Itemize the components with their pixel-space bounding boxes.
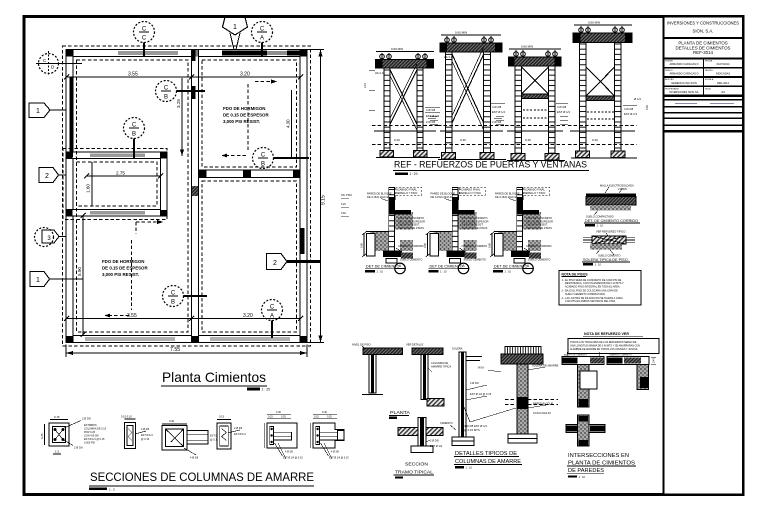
H1 hatch body: [586, 197, 636, 206]
svg-text:SOLERA TIPICA DE PISO: SOLERA TIPICA DE PISO: [583, 258, 628, 262]
title block frame: [664, 17, 744, 495]
right top room inner dashed: [202, 60, 297, 167]
svg-text:CIMIENTO CORRIDO: CIMIENTO CORRIDO: [398, 244, 424, 248]
corner columns top: [66, 50, 73, 57]
plan outer dashed boundary: [63, 46, 311, 346]
concrete note left room: [102, 259, 148, 277]
refuerzo note box: [568, 339, 659, 354]
svg-text:2 Ø 3/8: 2 Ø 3/8: [430, 439, 439, 443]
svg-text:NOTA DE REFUERZO VER: NOTA DE REFUERZO VER: [584, 332, 629, 336]
svg-text:2 Ø 3/8: 2 Ø 3/8: [141, 428, 150, 431]
tower2 right leg: [484, 52, 491, 159]
floor slab detail H2: [582, 230, 635, 267]
svg-text:ARMANDO CARACAS D: ARMANDO CARACAS D: [669, 62, 698, 66]
svg-text:2 Ø 3/8: 2 Ø 3/8: [74, 446, 83, 450]
left vdim: [363, 234, 365, 256]
svg-text:PROPIETARIO: PROPIETARIO: [665, 88, 679, 91]
svg-text:4 Ø 3/8: 4 Ø 3/8: [624, 107, 634, 111]
svg-text:SECCIONES DE COLUMNAS DE AMAR: SECCIONES DE COLUMNAS DE AMARRE: [90, 470, 314, 484]
svg-text:NIV. PISO: NIV. PISO: [341, 194, 352, 197]
svg-text:NOTA DE PISOS: NOTA DE PISOS: [562, 273, 589, 277]
beam black top: [389, 197, 395, 212]
svg-text:0.15 0.10: 0.15 0.10: [121, 415, 132, 419]
grid bubble pentagon 2 right: [267, 254, 322, 270]
svg-text:0.40: 0.40: [276, 411, 281, 414]
inter-tower annotation cluster 2: [492, 118, 502, 124]
tower2 base pads: [442, 153, 456, 160]
2.75 dimension small room: [84, 170, 163, 178]
tower4 top dim: [574, 24, 632, 26]
svg-text:4 Ø 3/8: 4 Ø 3/8: [285, 451, 294, 454]
tower3 inner dashed: [523, 109, 548, 111]
svg-text:CIMIENTO: CIMIENTO: [440, 421, 453, 425]
svg-text:3,000 PSI: 3,000 PSI: [84, 442, 95, 445]
svg-text:INDICADAS: INDICADAS: [716, 72, 730, 76]
column elevation detail mid: [440, 347, 492, 446]
svg-text:DISEÑO: DISEÑO: [665, 60, 673, 63]
svg-text:4 Ø 3/8: 4 Ø 3/8: [492, 105, 502, 109]
svg-text:@ 0.15 MTS: @ 0.15 MTS: [464, 428, 480, 432]
svg-text:B: B: [171, 300, 175, 306]
grid bubble pentagon 2 left: [39, 168, 66, 183]
grid bubble C/B right room: [253, 148, 310, 169]
foundation section detail 2: [423, 187, 488, 274]
tower4 inner dashed: [587, 111, 614, 113]
top wall: [66, 50, 307, 57]
left form board: [367, 234, 376, 257]
svg-text:B: B: [261, 162, 265, 168]
svg-text:1.60: 1.60: [86, 184, 91, 193]
tower1 top dim marks: [376, 51, 434, 53]
interior wall column hatch: [192, 186, 198, 196]
planta label: [389, 410, 411, 419]
seccion cross detail: [398, 418, 443, 453]
H2 left wing lines: [583, 237, 592, 239]
svg-text:3,000 PSI RESIST.: 3,000 PSI RESIST.: [223, 119, 260, 124]
base outline: [386, 259, 397, 264]
continuous footing detail H1: [584, 184, 640, 228]
dashed route arrow left room lower: [104, 240, 132, 318]
svg-text:0.60: 0.60: [341, 212, 346, 215]
grid bubble C/A top: [252, 22, 273, 58]
svg-text:3,000 PSI RESIST.: 3,000 PSI RESIST.: [102, 272, 139, 277]
svg-text:0.40: 0.40: [592, 138, 598, 142]
H1 lower stipple: [590, 205, 631, 211]
plan title underline: [161, 385, 267, 387]
tower3 bolt stems: [516, 50, 555, 56]
svg-text:0.60 MIN: 0.60 MIN: [455, 31, 467, 35]
svg-text:A: A: [260, 36, 264, 42]
nota de refuerzo header: [583, 332, 643, 336]
svg-text:0.25: 0.25: [327, 416, 332, 419]
svg-text:0.15: 0.15: [314, 416, 319, 419]
column section S6: [310, 411, 349, 460]
svg-text:2 Ø 3/8: 2 Ø 3/8: [426, 120, 436, 124]
svg-text:REPELLO Y FINO: REPELLO Y FINO: [396, 191, 417, 195]
svg-text:1 : 25: 1 : 25: [262, 387, 271, 391]
svg-text:0.60 MIN: 0.60 MIN: [391, 47, 403, 51]
svg-text:ACABADO FINO INTEGRAL EN TODA: ACABADO FINO INTEGRAL EN TODA EL AREA.: [565, 285, 621, 288]
svg-text:VER DETALLE: VER DETALLE: [406, 343, 424, 347]
column section S3: [162, 419, 222, 460]
corner columns bottom: [66, 336, 73, 342]
tower 2: [430, 31, 506, 160]
svg-text:2 Ø 3/8: 2 Ø 3/8: [492, 120, 502, 124]
svg-text:0.20: 0.20: [341, 203, 346, 206]
svg-text:2 Ø 3/8: 2 Ø 3/8: [618, 187, 627, 191]
svg-text:4.30: 4.30: [286, 119, 291, 128]
svg-text:5.90: 5.90: [77, 267, 82, 276]
svg-text:0.40: 0.40: [394, 138, 400, 142]
grid bubble C/C top: [134, 22, 155, 58]
left wall: [66, 50, 73, 343]
svg-text:3.25: 3.25: [176, 99, 181, 108]
detail bubble: [395, 263, 406, 274]
grid bubble pentagon 1 bottom-left: [30, 272, 83, 287]
svg-text:REF - REFUERZOS DE PUERTAS Y V: REF - REFUERZOS DE PUERTAS Y VENTANAS: [394, 159, 587, 170]
tower3 left leg: [515, 66, 522, 160]
interior wall black segment mid: [192, 86, 196, 99]
svg-text:ANCHO DE CIMIENTO: ANCHO DE CIMIENTO: [564, 354, 587, 357]
intersecciones labels: [567, 453, 636, 479]
bottom wall: [66, 336, 307, 343]
intersection cross detail: [566, 415, 605, 446]
tower1 bolts: [380, 54, 385, 59]
tower 1: [363, 47, 440, 157]
H2 crosshatch bar: [592, 236, 626, 244]
svg-text:NIVEL DE PISO: NIVEL DE PISO: [352, 343, 371, 347]
tower1 beam: [376, 60, 434, 69]
tower1 left dim ticks: [369, 70, 375, 110]
svg-text:HIL 0.20: HIL 0.20: [375, 71, 385, 75]
svg-text:UNA LONGITUD MINIMA DE 0.40 MT: UNA LONGITUD MINIMA DE 0.40 MTS Y SE AMA…: [570, 344, 640, 347]
svg-text:FECHA: FECHA: [705, 60, 713, 63]
tower3 bolts: [514, 52, 519, 57]
svg-text:INTERSECCIONES EN: INTERSECCIONES EN: [568, 453, 629, 459]
column elevation detail right: [478, 347, 559, 444]
svg-text:COLUMNAS DE AMARRE: COLUMNAS DE AMARRE: [455, 459, 522, 465]
tower2 beam: [440, 43, 502, 52]
svg-text:2 Ø 3/8: 2 Ø 3/8: [82, 417, 91, 421]
tower3 mid beam: [522, 94, 549, 99]
svg-text:3.55: 3.55: [128, 71, 138, 77]
seccion labels: [394, 462, 435, 479]
svg-text:1 : 5: 1 : 5: [109, 487, 115, 491]
svg-text:SION, S.A.: SION, S.A.: [692, 29, 713, 34]
top wall gray segment: [118, 51, 178, 55]
svg-text:SECCION: SECCION: [405, 462, 429, 468]
leaders center: [462, 402, 516, 432]
inter-tower annotation cluster 1: [426, 118, 436, 124]
tower4 mid beam: [586, 96, 614, 101]
svg-text:EST Ø 1/4: EST Ø 1/4: [492, 110, 505, 114]
svg-text:HIL 0.20: HIL 0.20: [444, 55, 454, 59]
svg-text:1 : 10: 1 : 10: [597, 224, 604, 228]
grid bubble C/B lower left: [163, 286, 208, 307]
top dimension line: [64, 71, 303, 83]
svg-text:1 : 10: 1 : 10: [595, 263, 602, 267]
svg-text:1: 1: [36, 108, 40, 115]
column section S5: [264, 411, 303, 460]
plan scale note: [247, 388, 260, 391]
svg-text:REF-2014: REF-2014: [693, 50, 714, 55]
column section S1: [40, 415, 91, 454]
floor notes box: [559, 271, 641, 306]
top annotation right: [396, 187, 422, 195]
svg-text:1 : 10: 1 : 10: [579, 475, 586, 479]
dashed route arrow left room upper: [136, 220, 163, 234]
S1 rebar note: [84, 424, 107, 445]
svg-text:2: 2: [273, 260, 277, 267]
svg-text:REF-2014: REF-2014: [717, 81, 729, 85]
grid bubble cluster circle pentagon left: [35, 228, 67, 247]
svg-text:2/4: 2/4: [721, 90, 725, 94]
grid bubble C/B near interior wall: [156, 81, 206, 102]
svg-text:1 : 10: 1 : 10: [466, 466, 473, 470]
svg-text:3.20: 3.20: [240, 71, 250, 77]
small room top wall: [66, 152, 167, 159]
small room inner dashed: [77, 162, 158, 206]
svg-text:EST Ø 1/4: EST Ø 1/4: [557, 110, 570, 114]
svg-text:0.25: 0.25: [40, 433, 44, 439]
top beam cross: [389, 210, 411, 215]
svg-text:B: B: [132, 132, 136, 138]
svg-text:Planta Cimientos: Planta Cimientos: [162, 369, 266, 385]
tower2 top dim: [441, 34, 501, 36]
tower4 right leg: [615, 43, 622, 158]
right dimension 9.15: [307, 50, 327, 343]
svg-text:9.15: 9.15: [321, 195, 327, 205]
tower3 top dim: [509, 48, 561, 50]
svg-text:0.40: 0.40: [169, 419, 175, 423]
small room outer dashed: [63, 149, 167, 220]
svg-text:1: 1: [233, 24, 237, 31]
column section S4: [217, 415, 246, 450]
svg-text:SUELO CEMENTO: SUELO CEMENTO: [400, 258, 422, 262]
svg-text:2 Ø 3/8: 2 Ø 3/8: [234, 427, 243, 430]
tower1 right leg: [417, 68, 423, 157]
tower3 beam: [509, 57, 561, 66]
svg-text:Ø 1/4: Ø 1/4: [634, 97, 641, 101]
svg-text:GERENCIA ING SION: GERENCIA ING SION: [671, 81, 697, 85]
svg-text:SOLERA DE AMARRE: SOLERA DE AMARRE: [532, 364, 559, 368]
interior horizontal wall right: [199, 170, 301, 178]
right bottom room inner dashed: [202, 181, 297, 332]
svg-text:PARED BLOQUE: PARED BLOQUE: [533, 402, 554, 406]
tower3 ground dashed: [505, 125, 565, 127]
tower2 ground dashed: [438, 125, 505, 127]
lower inside dimension line: [64, 313, 303, 321]
small room right wall: [161, 152, 168, 216]
company section divider: [664, 37, 743, 39]
H2 stipple below: [590, 244, 622, 250]
row labels: [665, 60, 714, 91]
grid bubble pentagon 1 top: [223, 17, 248, 50]
H2 right wing lines: [626, 237, 635, 239]
svg-text:VER REFUERZO TIPICO: VER REFUERZO TIPICO: [596, 230, 626, 234]
3.25 vertical dimension at interior wall: [176, 78, 184, 156]
planta L-detail wall 2: [406, 343, 451, 407]
wall ladder: [389, 188, 395, 257]
svg-text:7.55: 7.55: [170, 347, 180, 353]
svg-text:0.40: 0.40: [525, 138, 531, 142]
svg-text:DE 0.15 DE ESPESOR: DE 0.15 DE ESPESOR: [223, 113, 269, 118]
tower2 mid dim cluster: [430, 116, 438, 124]
svg-text:ALAMBRE DE AMARRE EN TODOS LOS: ALAMBRE DE AMARRE EN TODOS LOS CRUCES Y …: [570, 348, 638, 351]
right wall: [300, 50, 307, 343]
revision row faint entries: [675, 102, 697, 104]
svg-text:ESCALA: ESCALA: [705, 78, 714, 81]
planta L-detail wall 1: [352, 343, 403, 395]
svg-text:VER NOTA DE PISOS: VER NOTA DE PISOS: [398, 226, 424, 230]
tower3 base pads: [511, 154, 525, 161]
svg-text:FDO DE HORMIGON: FDO DE HORMIGON: [102, 259, 144, 264]
H1 top black band: [586, 194, 636, 197]
svg-text:@ 0.15: @ 0.15: [141, 438, 150, 441]
svg-text:0.40: 0.40: [653, 358, 656, 363]
svg-text:REVISO: REVISO: [705, 70, 713, 72]
svg-text:0.15: 0.15: [268, 416, 273, 419]
svg-text:1: 1: [36, 277, 40, 284]
tower4 beam: [573, 33, 632, 43]
detalles tipicos labels: [454, 451, 522, 470]
column section S2: [121, 415, 153, 449]
svg-text:4 Ø 3/8: 4 Ø 3/8: [470, 381, 479, 385]
svg-text:2: 2: [45, 173, 49, 180]
left margin annotation cluster: [341, 194, 352, 216]
tower 4: [560, 21, 649, 158]
svg-text:SUELO CEMENTO COMPACTADO.: SUELO CEMENTO COMPACTADO.: [565, 293, 606, 296]
svg-text:HOJA: HOJA: [705, 88, 711, 91]
bottom wall gray segments: [85, 337, 175, 341]
dashed route arrow right room: [221, 84, 248, 158]
tower2 bolts: [445, 38, 450, 43]
svg-text:2.10: 2.10: [363, 82, 367, 88]
tower1 bolt stems: [382, 53, 425, 59]
svg-text:B: B: [164, 95, 168, 101]
svg-text:3.00 MTS EN AMBOS SENTIDOS DEL: 3.00 MTS EN AMBOS SENTIDOS DEL PISO.: [565, 300, 616, 303]
footing hatch band: [401, 253, 413, 259]
right wall black segment: [301, 228, 305, 254]
grid bubble cross circle top-left: [36, 51, 82, 76]
svg-text:INVERSIONES Y CONSTRUCCIONES: INVERSIONES Y CONSTRUCCIONES: [667, 21, 739, 26]
tower4 bolt stems: [581, 26, 622, 32]
secciones title: [89, 470, 314, 491]
tower3 right leg: [548, 66, 555, 160]
svg-text:TODOS LOS TRASLAPES DE LOS REF: TODOS LOS TRASLAPES DE LOS REFUERZOS SER…: [570, 341, 637, 344]
svg-text:1 : 10: 1 : 10: [377, 269, 384, 273]
svg-text:EST Ø 1/4 @ 0.15: EST Ø 1/4 @ 0.15: [470, 392, 492, 396]
small room bottom wall: [66, 210, 167, 217]
tower4 bolts: [579, 28, 584, 33]
signature table row lines: [664, 67, 743, 69]
intersection detail T1: [562, 352, 604, 407]
svg-text:4 Ø 3/8: 4 Ø 3/8: [190, 457, 199, 460]
tower1 x-brace: [390, 70, 417, 124]
svg-text:0.15: 0.15: [219, 415, 225, 419]
svg-text:CIMIENTO CORRIDO T: CIMIENTO CORRIDO T: [609, 355, 633, 357]
svg-text:AMARRE TIPICA: AMARRE TIPICA: [431, 364, 451, 368]
svg-text:0.15: 0.15: [54, 415, 60, 419]
towers scale note: [395, 172, 408, 175]
floor line left: [366, 231, 389, 233]
bottom dimension 7.55: [66, 345, 307, 358]
svg-text:0.60: 0.60: [360, 242, 364, 248]
svg-text:4 Ø 3/8: 4 Ø 3/8: [557, 105, 567, 109]
intersection detail T2: [607, 355, 656, 390]
svg-text:MALLA ELECTROSOLDADA: MALLA ELECTROSOLDADA: [600, 184, 634, 188]
svg-text:EST Ø 1/4: EST Ø 1/4: [141, 434, 153, 437]
5.90 vertical dimension: [77, 213, 86, 337]
right soil hatch upper: [394, 212, 413, 230]
svg-text:2.75: 2.75: [116, 170, 125, 175]
1.60 vertical dimension small room: [86, 162, 92, 206]
hwall column blocks: [199, 171, 207, 178]
svg-text:EST Ø 1/4: EST Ø 1/4: [624, 112, 637, 116]
grid bubble pentagon 1 left: [29, 103, 66, 118]
interior vertical wall: [192, 50, 199, 343]
row values: [669, 62, 730, 94]
left wall black segment: [70, 77, 74, 157]
floor slab hatch left: [370, 232, 389, 252]
tower2 bolt stems: [447, 36, 491, 42]
svg-text:EST Ø 1/4 @ 0.15: EST Ø 1/4 @ 0.15: [283, 457, 303, 460]
svg-text:4 Ø 3/8: 4 Ø 3/8: [331, 451, 340, 454]
small room corner columns: [66, 152, 72, 158]
svg-text:EST Ø 1/4 @ 0.15: EST Ø 1/4 @ 0.15: [329, 457, 349, 460]
tower1 base pads: [380, 151, 394, 158]
svg-text:4 Ø 3/8: 4 Ø 3/8: [426, 108, 436, 112]
tower4 x-brace: [586, 67, 614, 96]
H1 leaders: [605, 187, 609, 193]
svg-text:C: C: [142, 36, 147, 42]
svg-text:DE 0.15x0.20x0.40: DE 0.15x0.20x0.40: [367, 195, 390, 199]
svg-text:INVERSIONES SION SA: INVERSIONES SION SA: [670, 90, 699, 94]
svg-text:SOLERA: SOLERA: [452, 347, 463, 351]
revision table rows: [664, 99, 743, 101]
foundation section detail 1: [360, 187, 425, 274]
footing black: [383, 251, 402, 258]
tower 3: [496, 45, 570, 161]
foundation section detail 3: [488, 187, 553, 274]
tower3 mid dim cluster: [496, 116, 504, 124]
svg-text:0.25: 0.25: [281, 416, 286, 419]
tower2 x-brace: [452, 54, 484, 123]
title section divider: [664, 57, 743, 59]
svg-text:DE 0.15 DE ESPESOR: DE 0.15 DE ESPESOR: [102, 266, 148, 271]
tower1 ground dashed lines: [372, 125, 438, 127]
towers title underline: [393, 170, 589, 172]
svg-text:ARMANDO CARACAS D: ARMANDO CARACAS D: [669, 72, 698, 76]
4.30 vertical dimension right room: [286, 90, 292, 158]
svg-text:FDO DE HORMIGON: FDO DE HORMIGON: [223, 106, 265, 111]
top wall black door segment: [222, 51, 267, 56]
svg-text:0.60 MIN: 0.60 MIN: [588, 21, 600, 25]
svg-text:1-2: 1-2: [55, 450, 60, 454]
interior wall black segment top: [192, 50, 196, 61]
svg-text:0.90: 0.90: [645, 104, 649, 110]
svg-text:DET. DE CIMIENTO CORRIDO: DET. DE CIMIENTO CORRIDO: [585, 219, 638, 223]
svg-text:0.15x0.20x0.40: 0.15x0.20x0.40: [533, 411, 551, 415]
small room gray segments: [90, 154, 145, 158]
svg-text:0.60 MIN: 0.60 MIN: [521, 45, 533, 49]
svg-text:VIGA: VIGA: [478, 366, 484, 370]
left room inner dashed: [77, 60, 189, 332]
svg-text:0.40: 0.40: [322, 411, 327, 414]
concrete note right room: [223, 106, 269, 124]
svg-text:3.20: 3.20: [243, 313, 253, 319]
tower2 left leg: [445, 52, 452, 159]
